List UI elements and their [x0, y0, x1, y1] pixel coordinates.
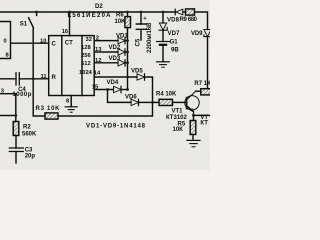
svg-text:R9 680: R9 680 — [180, 17, 198, 23]
diode VD6 — [131, 99, 139, 105]
svg-text:11: 11 — [41, 74, 48, 80]
svg-text:13: 13 — [95, 47, 102, 53]
resistor R7 (cut at edge) — [201, 89, 211, 95]
svg-text:10: 10 — [40, 39, 46, 45]
resistor R2 — [13, 122, 19, 136]
diode VD5 — [137, 74, 145, 80]
wire output row 12 (256) — [94, 62, 118, 64]
svg-text:VD9: VD9 — [191, 31, 203, 37]
wire pin10 row to counter C input — [11, 42, 49, 44]
svg-text:VD6: VD6 — [125, 94, 137, 100]
svg-text:CT: CT — [65, 40, 73, 46]
capacitor C5 electrolytic — [140, 12, 142, 24]
wire output row 14 (512) — [94, 76, 137, 78]
capacitor C4 — [16, 73, 19, 85]
resistor R3 — [45, 113, 58, 119]
svg-text:R3 10K: R3 10K — [36, 106, 61, 112]
diode VD8 on rail — [176, 9, 183, 15]
diode VD9 zener — [204, 30, 211, 37]
wire emitter to right edge — [194, 114, 211, 116]
svg-text:9В: 9В — [171, 47, 179, 53]
svg-text:32: 32 — [86, 37, 92, 43]
wire emitter down to R5 — [193, 115, 195, 120]
svg-text:VD1: VD1 — [116, 33, 128, 39]
svg-text:C: C — [52, 42, 57, 48]
svg-text:1024: 1024 — [79, 70, 93, 76]
diode VD2 — [118, 49, 125, 55]
wire G1 branch — [162, 12, 164, 23]
svg-text:К561ИЕ20А: К561ИЕ20А — [68, 13, 112, 19]
svg-text:VD7: VD7 — [168, 31, 181, 37]
wire output row 2 (32) — [94, 40, 118, 42]
ground below R5 — [187, 139, 200, 141]
wire S1 to C4 junction and down to R3 corner — [33, 28, 45, 116]
node bus dots — [126, 39, 129, 42]
svg-text:КТ: КТ — [200, 120, 208, 126]
wire C4 / R-input row — [0, 78, 16, 80]
wire top supply rail — [0, 11, 175, 13]
svg-text:15: 15 — [92, 85, 99, 91]
resistor R6 — [125, 17, 131, 28]
svg-text:256: 256 — [81, 53, 91, 59]
diode VD4 — [114, 86, 122, 92]
svg-text:512: 512 — [81, 61, 91, 67]
node left bottom junction — [14, 114, 17, 117]
svg-text:20p: 20p — [25, 153, 36, 159]
ground at pin 8 — [65, 106, 77, 108]
diode VD3 — [118, 60, 125, 66]
svg-text:R: R — [52, 75, 57, 81]
diode VD7 zener — [159, 23, 166, 30]
svg-text:R7 1К: R7 1К — [194, 81, 210, 87]
svg-text:1000p: 1000p — [12, 92, 31, 98]
wire "3" row bottom left — [0, 94, 16, 116]
svg-text:2200м/16В: 2200м/16В — [147, 22, 153, 53]
svg-text:128: 128 — [81, 45, 91, 51]
resistor R4 — [159, 99, 173, 105]
svg-text:R2: R2 — [23, 124, 31, 130]
svg-text:10К: 10К — [173, 127, 184, 133]
capacitor C3 — [9, 148, 23, 152]
wire 1024 branch down to VD6 — [108, 90, 132, 103]
svg-text:R6: R6 — [116, 13, 124, 19]
IC D2 counter box — [49, 36, 94, 96]
svg-text:560K: 560K — [22, 132, 37, 138]
svg-text:VD1-VD9-1N4148: VD1-VD9-1N4148 — [86, 123, 146, 129]
wire pin8 ground stub — [70, 96, 72, 107]
wire pin16 stub — [69, 12, 71, 36]
svg-text:VD4: VD4 — [107, 80, 119, 86]
svg-text:C5: C5 — [135, 38, 141, 46]
ground below G1 — [157, 61, 170, 63]
wire output row 15 (1024) — [94, 89, 113, 91]
resistor R9 — [186, 9, 195, 15]
svg-text:G1: G1 — [170, 40, 179, 46]
IC D1 (left, cut off) — [0, 22, 11, 59]
transistor VT1 — [185, 96, 199, 110]
wire output row 13 (128) — [94, 51, 118, 53]
svg-text:16: 16 — [62, 29, 69, 35]
svg-text:0: 0 — [4, 39, 7, 45]
svg-text:VD2: VD2 — [109, 45, 121, 51]
svg-text:VD3: VD3 — [109, 56, 121, 62]
svg-text:R4 10K: R4 10K — [156, 92, 177, 98]
wire diode bus vertical — [127, 28, 129, 90]
node emitter junction — [192, 114, 195, 117]
svg-text:12: 12 — [95, 58, 101, 64]
svg-text:VT1: VT1 — [172, 109, 184, 115]
svg-text:2: 2 — [96, 35, 99, 41]
battery G1 — [157, 41, 170, 43]
svg-text:10K: 10K — [115, 19, 127, 25]
node C4 junction — [32, 77, 35, 80]
svg-text:14: 14 — [94, 71, 101, 77]
node S1 top on rail — [35, 11, 38, 14]
svg-text:D2: D2 — [95, 4, 103, 10]
svg-text:S1: S1 — [20, 22, 28, 28]
resistor R5 — [190, 121, 196, 135]
svg-text:VD8: VD8 — [167, 17, 180, 23]
svg-text:КТ3102: КТ3102 — [166, 115, 187, 121]
node VD6/R4 junction — [151, 101, 154, 104]
diode VD1 — [118, 37, 125, 43]
switch S1 — [36, 12, 38, 15]
svg-text:VD5: VD5 — [131, 69, 143, 75]
